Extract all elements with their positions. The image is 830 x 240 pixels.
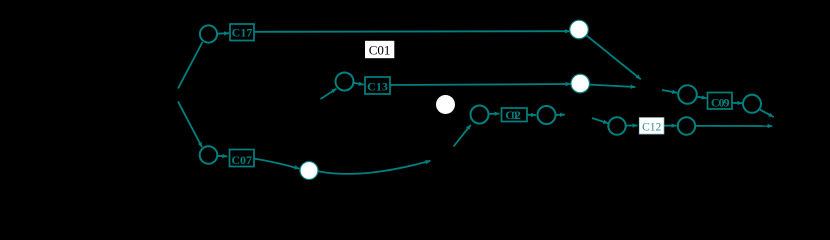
svg-text:C01: C01 <box>369 42 391 57</box>
svg-text:C09: C09 <box>711 95 730 109</box>
svg-text:C12: C12 <box>642 122 661 134</box>
svg-text:C17: C17 <box>232 26 253 40</box>
svg-text:C13: C13 <box>367 79 388 93</box>
svg-text:C07: C07 <box>231 153 252 167</box>
